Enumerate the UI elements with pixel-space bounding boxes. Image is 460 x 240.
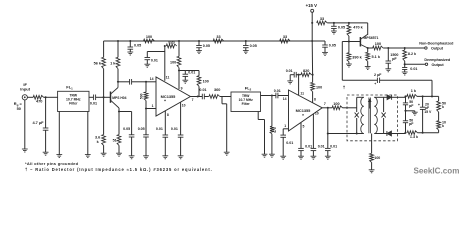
wire: to deemphasized terminal bbox=[405, 63, 426, 65]
capacitor 0.01 (U2 pin1 bypass) bbox=[280, 134, 286, 136]
resistor 390 k (Q2 bias low) bbox=[348, 42, 350, 53]
node N (Q2 emitter) bbox=[367, 47, 369, 49]
terminal non-deemphasized output bbox=[425, 47, 427, 49]
ground (U2 pin1 bypass) bbox=[280, 155, 286, 157]
svg-text:Output: Output bbox=[431, 47, 444, 51]
svg-text:100: 100 bbox=[316, 85, 322, 89]
resistor 470 (U2 input) bbox=[270, 126, 274, 134]
svg-text:15 V: 15 V bbox=[424, 110, 432, 114]
capacitor (detector primary tuning) bbox=[355, 113, 359, 118]
svg-text:100: 100 bbox=[146, 35, 152, 39]
terminal deemphasized output bbox=[425, 63, 427, 65]
ground (center tap) bbox=[369, 169, 375, 171]
resistor 1 k (Q1 collector load) bbox=[116, 57, 120, 68]
svg-text:0.01: 0.01 bbox=[286, 141, 293, 145]
svg-text:1 k: 1 k bbox=[110, 62, 116, 66]
svg-text:k: k bbox=[442, 124, 444, 128]
transistor Q1 MPS H04 bbox=[110, 92, 112, 103]
capacitor 0.05 (bus bypass 3) bbox=[245, 40, 247, 42]
wire: U2 output bbox=[322, 107, 332, 109]
capacitor 0.05 (bus end bypass) bbox=[322, 44, 328, 46]
resistor 100 (U2 dropping) bbox=[312, 75, 314, 83]
wire: to U2 pin 11 bbox=[298, 75, 300, 96]
svg-text:0.05: 0.05 bbox=[338, 26, 345, 30]
svg-text:470: 470 bbox=[36, 99, 43, 104]
svg-text:0.01: 0.01 bbox=[305, 144, 312, 148]
svg-text:Non-Deemphasized: Non-Deemphasized bbox=[419, 41, 454, 45]
svg-text:100: 100 bbox=[203, 79, 209, 83]
wire: FL2 bottom pin bbox=[257, 112, 259, 120]
node Q (deemphasized node) bbox=[404, 63, 406, 65]
tuning arrow bbox=[368, 99, 371, 108]
wire: 360 to FL2 bbox=[220, 96, 231, 98]
svg-text:390 k: 390 k bbox=[352, 56, 362, 60]
svg-text:*: * bbox=[164, 99, 166, 104]
svg-text:*: * bbox=[302, 113, 304, 118]
node U (detector return) bbox=[327, 132, 329, 134]
svg-text:+: + bbox=[374, 82, 376, 86]
node A (input junction) bbox=[45, 96, 47, 98]
wire: node to U1 pin 14 bbox=[146, 81, 156, 83]
node O (1500pF tap) bbox=[387, 47, 389, 49]
wire: node to U1 pin 9 bbox=[178, 71, 180, 90]
diode D2 (bottom) bbox=[384, 133, 387, 135]
capacitor 0.05 (bus bypass 1) bbox=[129, 40, 131, 42]
capacitor 0.01 (de-emphasis) bbox=[404, 64, 406, 67]
wire: U2 pin 10 to cap bbox=[312, 114, 314, 148]
ground (detector return) bbox=[325, 155, 331, 157]
svg-text:0.01: 0.01 bbox=[410, 67, 417, 71]
svg-text:5.1 k: 5.1 k bbox=[372, 55, 381, 59]
svg-text:1: 1 bbox=[284, 124, 286, 128]
ground (rail bypass) bbox=[331, 30, 337, 32]
svg-text:0.01: 0.01 bbox=[90, 102, 97, 106]
wire: bus down to 1k bbox=[117, 40, 119, 42]
node X (audio riser joint) bbox=[431, 95, 433, 97]
capacitor 50 pF (upper) bbox=[405, 96, 407, 103]
node P (8.2k tap) bbox=[404, 47, 406, 49]
node H (U1 output) bbox=[197, 95, 199, 97]
resistor 1 k (audio) bbox=[407, 95, 417, 99]
ground (pin11 bypass) bbox=[144, 63, 150, 65]
wire: primary top bbox=[357, 96, 364, 98]
capacitor 50 pF (lower) bbox=[405, 111, 407, 121]
node I (FL2 output) bbox=[271, 94, 273, 96]
svg-text:100: 100 bbox=[375, 42, 381, 46]
ground (bus bypass 2) bbox=[196, 50, 202, 52]
capacitor 0.01 (U2 input coupling) bbox=[275, 93, 277, 99]
svg-text:Output: Output bbox=[432, 63, 445, 67]
ground (51) bbox=[116, 152, 122, 154]
resistor 100 (detector drive) bbox=[332, 106, 342, 110]
wire: pin1 node down to cap bbox=[145, 109, 147, 135]
resistor 3.6 k (bias) bbox=[102, 135, 106, 146]
resistor 1.3 k (audio return) bbox=[407, 131, 417, 135]
resistor 51 (Q1 emitter) bbox=[117, 135, 121, 146]
capacitor 0.05 (emitter bypass) bbox=[129, 134, 135, 136]
wire: U1 output bbox=[190, 96, 202, 98]
svg-text:8: 8 bbox=[314, 97, 316, 101]
ground (bus bypass 1) bbox=[127, 51, 133, 53]
svg-text:7: 7 bbox=[324, 102, 326, 106]
wire: secondary center tap down bbox=[371, 134, 373, 154]
node K (rail bypass) bbox=[333, 22, 335, 24]
svg-text:0.01: 0.01 bbox=[151, 59, 158, 63]
wire: FL1 output bbox=[89, 96, 93, 98]
ground (bus bypass 3) bbox=[243, 50, 249, 52]
wire: cap to U2 pin 14 bbox=[278, 95, 289, 97]
transformer core bbox=[368, 98, 370, 134]
svg-text:11: 11 bbox=[166, 75, 170, 79]
wire: secondary bottom to right branch bbox=[374, 133, 383, 135]
node F (pin 1 node) bbox=[145, 101, 147, 109]
wire: U2 pin 1 stub bbox=[283, 128, 288, 130]
svg-text:0.01: 0.01 bbox=[171, 127, 178, 131]
input terminal J1 bbox=[22, 95, 27, 100]
wire: detector left branch bbox=[356, 97, 358, 112]
svg-text:Filter: Filter bbox=[69, 102, 78, 106]
wire: supply riser to U2 node bbox=[311, 41, 313, 75]
svg-text:0.05: 0.05 bbox=[203, 44, 210, 48]
wire: Q1 emitter down bbox=[118, 108, 120, 112]
node V (50pF top) bbox=[404, 95, 406, 97]
filter FL2 box bbox=[231, 92, 261, 112]
ground (FL1 left pin) bbox=[56, 154, 62, 156]
resistor 100 (center tap) bbox=[370, 153, 374, 162]
svg-text:50: 50 bbox=[17, 106, 21, 111]
resistor 33 (bus decoupling 1) bbox=[213, 39, 224, 43]
resistor 470 (input) bbox=[33, 95, 43, 99]
wire: 820 left to pin 11 bbox=[164, 46, 166, 81]
svg-text:0.05: 0.05 bbox=[329, 43, 336, 47]
svg-text:SeekIC.com: SeekIC.com bbox=[414, 166, 460, 175]
svg-text:1.3 k: 1.3 k bbox=[410, 135, 419, 139]
wire: coupling cap to Q1 base bbox=[96, 96, 111, 98]
svg-text:k: k bbox=[442, 105, 444, 109]
resistor 50 k (audio load) bbox=[438, 96, 440, 101]
capacitor 0.01 (pin 10 bypass) bbox=[178, 134, 184, 136]
ground (input) bbox=[22, 148, 28, 150]
wire: primary bottom bbox=[357, 133, 364, 135]
capacitor 0.01 (pin 8 bypass) bbox=[163, 134, 169, 136]
svg-text:MPS H04: MPS H04 bbox=[112, 96, 126, 100]
wire: mid stub to ground bbox=[406, 110, 415, 112]
ground (pin10 bypass) bbox=[178, 155, 184, 157]
svg-text:7: 7 bbox=[192, 98, 194, 102]
resistor 100 (U1 output load) bbox=[197, 76, 201, 87]
svg-text:FL1: FL1 bbox=[66, 85, 73, 91]
capacitor 0.05 (pin1 bypass) bbox=[143, 134, 149, 136]
ground (emitter bypass) bbox=[129, 155, 135, 157]
wire: detector bottom output row bbox=[398, 133, 406, 135]
ground (U1 node bypass) bbox=[182, 79, 188, 81]
svg-text:Input: Input bbox=[20, 86, 30, 91]
node M (Q2 base node) bbox=[348, 40, 350, 42]
node E (pin 14 node) bbox=[145, 81, 147, 83]
capacitor 4.7 uF bbox=[43, 127, 49, 129]
capacitor 0.05 (rail bypass) bbox=[333, 23, 335, 26]
filter FL1 box bbox=[58, 91, 89, 111]
svg-text:+: + bbox=[418, 103, 420, 107]
wire: to ratio detector bbox=[343, 107, 357, 109]
svg-text:Filter: Filter bbox=[242, 102, 251, 106]
wire: junction down to 4.7uF bbox=[45, 97, 47, 128]
svg-text:MPS6571: MPS6571 bbox=[364, 36, 379, 40]
ratio detector T1 dashed enclosure bbox=[347, 95, 398, 141]
wire: bus down to 56k bbox=[103, 41, 105, 57]
resistor 100 (bus decoupling 1) bbox=[144, 39, 155, 43]
capacitor 0.01 (FL1 output coupling) bbox=[93, 95, 95, 101]
svg-text:33: 33 bbox=[283, 35, 287, 39]
svg-text:470: 470 bbox=[273, 127, 277, 133]
node B (Q1 base bias tap) bbox=[103, 96, 105, 98]
svg-text:100: 100 bbox=[374, 156, 380, 160]
wire: node to output resistor bbox=[185, 70, 199, 72]
resistor 100 (U1 dropping) bbox=[178, 46, 180, 56]
resistor 500 (U1 input) bbox=[144, 92, 148, 101]
wire: rail corner down to Q2 collector bbox=[367, 23, 369, 35]
capacitor 0.01 (U2 pin5 bypass) bbox=[298, 147, 304, 149]
resistor 470 k (Q2 bias) bbox=[348, 23, 350, 25]
ground (4.7uF) bbox=[43, 151, 49, 153]
capacitor 0.01 (U1 node bypass) bbox=[179, 70, 185, 72]
wire: return to detector bottom bbox=[328, 133, 357, 135]
svg-text:0.01: 0.01 bbox=[274, 89, 281, 93]
svg-text:0.01: 0.01 bbox=[330, 144, 337, 148]
ground (U2 pin10 bypass) bbox=[311, 155, 317, 157]
svg-text:10: 10 bbox=[182, 104, 186, 108]
wire: audio to Q2 base riser bbox=[342, 79, 377, 81]
resistor 100 (output isolation) bbox=[368, 47, 373, 49]
svg-text:14: 14 bbox=[283, 97, 287, 101]
node G (U1 top node) bbox=[178, 68, 180, 71]
capacitor 0.01 (U1 pin11 bypass) bbox=[145, 57, 151, 59]
ground (interstage) bbox=[224, 151, 230, 153]
op-amp U1 MC1355 (IF amplifier/limiter) bbox=[156, 77, 190, 116]
node S (U2 pin 11 drop) bbox=[298, 74, 300, 76]
ground (50pF mid) bbox=[412, 111, 418, 113]
svg-text:pF: pF bbox=[392, 57, 397, 61]
svg-text:51: 51 bbox=[113, 138, 117, 142]
svg-text:8.2 k: 8.2 k bbox=[408, 52, 417, 56]
ground (pin1 bypass) bbox=[143, 155, 149, 157]
wire: pin14 node down to 500 bbox=[145, 82, 147, 92]
ground (U2 pin5 bypass) bbox=[298, 155, 304, 157]
wire: 1k to collector node bbox=[117, 69, 119, 82]
svg-text:10: 10 bbox=[315, 111, 319, 115]
ground (470) bbox=[269, 153, 275, 155]
ground (U2 pin11 bypass) bbox=[287, 80, 293, 82]
svg-text:1 k: 1 k bbox=[411, 89, 417, 93]
node J (supply split) bbox=[311, 22, 313, 24]
wire: drop to ground between 360 and FL2 bbox=[221, 97, 223, 104]
svg-text:0.05: 0.05 bbox=[134, 43, 141, 47]
wire: +15V down bbox=[311, 12, 313, 41]
svg-text:4.7 µF: 4.7 µF bbox=[32, 120, 44, 125]
capacitor 0.01 (Q1 collector to U1 pin14) bbox=[118, 81, 130, 83]
wire: U1 pin 10 to cap bbox=[180, 102, 182, 135]
svg-text:9: 9 bbox=[181, 87, 183, 91]
capacitor 2 uF (audio coupling) bbox=[376, 78, 378, 83]
node W (20uF top) bbox=[422, 95, 424, 97]
resistor 360 (interstage) bbox=[209, 95, 220, 99]
diode D1 (top) bbox=[384, 96, 387, 98]
ground (1500pF) bbox=[385, 68, 391, 70]
inductor T1 secondary bbox=[374, 97, 377, 133]
resistor 56 k (bias) bbox=[102, 57, 106, 68]
wire: U1 pin 8 to cap bbox=[164, 111, 166, 135]
svg-text:0.01: 0.01 bbox=[188, 71, 195, 75]
node W2 (20uF bottom) bbox=[422, 132, 424, 134]
wire: FL2 output bbox=[261, 95, 276, 97]
svg-text:1: 1 bbox=[152, 104, 154, 108]
wire: emitter to 51 bbox=[118, 112, 120, 135]
svg-text:0.01: 0.01 bbox=[156, 127, 163, 131]
node R (U2 top node) bbox=[312, 74, 314, 76]
svg-text:360: 360 bbox=[214, 88, 220, 92]
ground (de-emphasis cap) bbox=[402, 71, 408, 73]
svg-text:5: 5 bbox=[302, 125, 304, 129]
capacitor 0.01 (interstage coupling) bbox=[201, 94, 203, 100]
wire: FL1 bottom pin left bbox=[58, 112, 60, 155]
svg-text:† – Ratio Detector (Input Impe: † – Ratio Detector (Input Impedance ≈1.5… bbox=[25, 167, 213, 172]
svg-text:14: 14 bbox=[150, 77, 154, 81]
svg-text:33: 33 bbox=[320, 17, 324, 21]
wire: base node to Q2 base bbox=[349, 41, 361, 43]
svg-text:0.05: 0.05 bbox=[250, 44, 257, 48]
power bus wire (left, +15V) bbox=[104, 40, 312, 42]
wire: output junction down bbox=[327, 108, 329, 134]
svg-text:FL2: FL2 bbox=[245, 86, 252, 92]
ground (pin8 bypass) bbox=[162, 155, 168, 157]
resistor 33 (bus decoupling 2) bbox=[280, 39, 291, 43]
wire: 56k to base node bbox=[103, 69, 105, 98]
svg-text:0.05: 0.05 bbox=[123, 127, 130, 131]
svg-text:+15 V: +15 V bbox=[306, 3, 317, 8]
capacitor 20 uF 15 V electrolytic bbox=[422, 96, 424, 107]
transistor Q2 MPS6571 bbox=[359, 37, 361, 47]
resistor 820 (U1 supply) bbox=[164, 45, 166, 47]
node D (Q1 emitter) bbox=[118, 110, 120, 112]
wire: detector right branch bbox=[383, 97, 385, 112]
wire: bus down to 820 row bbox=[178, 41, 180, 46]
wire: audio feedback riser bbox=[431, 80, 433, 96]
wire: U2 pin 5 to cap bbox=[300, 123, 302, 149]
resistor 5.1 k (Q2 emitter) bbox=[367, 48, 369, 52]
wire: node down to 470 bbox=[271, 96, 273, 127]
svg-text:0.05: 0.05 bbox=[138, 127, 145, 131]
ground (FL2 pin) bbox=[262, 153, 268, 155]
inductor T1 primary bbox=[361, 97, 364, 133]
capacitor (detector secondary tuning) bbox=[382, 113, 386, 118]
op-amp U2 MC1355 (IF amplifier/limiter) bbox=[289, 90, 323, 131]
wire: rail to 470k and collector bbox=[327, 22, 367, 24]
capacitor 0.05 (bus bypass 2) bbox=[198, 40, 200, 42]
svg-text:500: 500 bbox=[139, 93, 143, 99]
capacitor 0.01 (detector return bypass) bbox=[327, 134, 329, 149]
svg-text:0.01: 0.01 bbox=[286, 69, 293, 73]
ground (5.1k) bbox=[365, 66, 371, 68]
wire: detector top output row bbox=[398, 96, 406, 98]
capacitor 0.01 (U2 pin11 bypass) bbox=[297, 74, 302, 76]
svg-text:MC1355: MC1355 bbox=[161, 94, 177, 99]
wire: junction to FL1 bbox=[44, 96, 58, 98]
wire: base node to audio riser bbox=[342, 41, 349, 43]
wire: input to R 470 bbox=[27, 96, 33, 98]
ground (bus end bypass) bbox=[322, 51, 328, 53]
svg-text:820: 820 bbox=[303, 69, 309, 73]
node Z (bottom row left) bbox=[404, 132, 406, 134]
resistor 8.2 k (de-emphasis) bbox=[404, 48, 406, 50]
svg-text:33: 33 bbox=[216, 35, 220, 39]
svg-text:11: 11 bbox=[300, 92, 304, 96]
node T (U2 output) bbox=[327, 107, 329, 109]
svg-text:0.01: 0.01 bbox=[199, 88, 206, 92]
wire: 820 stub to 0.01 bbox=[147, 51, 165, 53]
svg-text:†: † bbox=[343, 85, 346, 90]
resistor 10 k (audio load) bbox=[437, 121, 441, 130]
node L (470k top) bbox=[348, 22, 350, 24]
resistor 820 (U2 supply) bbox=[301, 73, 312, 77]
capacitor 1500 pF bbox=[387, 48, 389, 61]
wire: input to ground bbox=[24, 100, 26, 149]
svg-text:8: 8 bbox=[167, 113, 169, 117]
wire: base node down to 3.6k bbox=[103, 97, 105, 134]
ground (3.6k) bbox=[101, 152, 107, 154]
svg-text:56 k: 56 k bbox=[94, 62, 102, 66]
ground (390k) bbox=[346, 63, 352, 65]
svg-text:Deemphasized: Deemphasized bbox=[424, 58, 451, 62]
svg-text:470 k: 470 k bbox=[353, 25, 363, 29]
wire: emitter to bypass cap bbox=[119, 111, 132, 113]
svg-text:*All other pins grounded: *All other pins grounded bbox=[25, 161, 79, 166]
wire: FL1 bottom pin right bbox=[87, 112, 89, 155]
wire: secondary top to right branch bbox=[374, 96, 383, 98]
wire: bus stub right to bypass bbox=[312, 40, 325, 42]
svg-text:100: 100 bbox=[333, 102, 339, 106]
ground (FL1 right pin) bbox=[85, 154, 91, 156]
node Y (50pF mid) bbox=[404, 110, 406, 112]
svg-text:100: 100 bbox=[170, 61, 176, 65]
wire: node to U1 pin 1 bbox=[146, 108, 156, 110]
svg-text:2 µF: 2 µF bbox=[374, 73, 382, 77]
svg-text:820: 820 bbox=[168, 40, 174, 44]
svg-text:0.01: 0.01 bbox=[318, 144, 325, 148]
resistor 33 (Q2 supply) bbox=[317, 21, 328, 25]
capacitor 0.01 (U2 pin10 bypass) bbox=[311, 147, 317, 149]
node C (Q1 collector) bbox=[117, 81, 119, 83]
